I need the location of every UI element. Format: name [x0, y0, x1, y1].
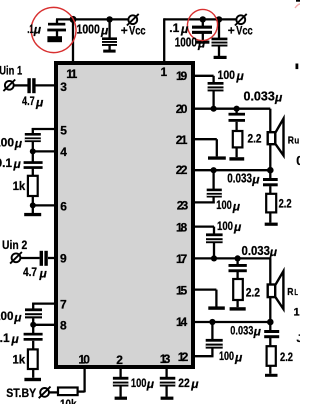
svg-text:6: 6 — [60, 199, 67, 213]
svg-text:0.1: 0.1 — [0, 331, 10, 345]
svg-text:1: 1 — [294, 307, 300, 319]
svg-text:μ: μ — [234, 350, 243, 364]
svg-text:15: 15 — [176, 283, 188, 297]
svg-text:18: 18 — [176, 220, 188, 234]
svg-text:1k: 1k — [13, 180, 26, 193]
svg-text:.1: .1 — [169, 21, 179, 35]
svg-text:0.033: 0.033 — [227, 173, 252, 186]
svg-text:100: 100 — [217, 220, 233, 233]
svg-text:μ: μ — [11, 332, 20, 346]
svg-text:Uin 1: Uin 1 — [0, 64, 22, 77]
svg-text:μ: μ — [253, 325, 262, 339]
svg-text:1: 1 — [161, 65, 168, 79]
svg-text:13: 13 — [160, 352, 171, 366]
svg-text:μ: μ — [39, 267, 48, 281]
svg-text:3: 3 — [60, 80, 67, 94]
svg-text:5: 5 — [60, 123, 67, 137]
svg-text:4.7: 4.7 — [22, 95, 35, 109]
svg-text:μ: μ — [232, 199, 241, 213]
svg-text:20: 20 — [176, 102, 188, 116]
svg-text:μ: μ — [180, 22, 189, 36]
svg-text:9: 9 — [60, 251, 67, 265]
svg-text:μ: μ — [274, 91, 283, 105]
svg-text:2: 2 — [116, 353, 123, 367]
svg-text:21: 21 — [176, 133, 188, 147]
svg-text:2.2: 2.2 — [280, 351, 293, 364]
svg-text:μ: μ — [35, 96, 44, 110]
svg-text:100: 100 — [219, 350, 234, 364]
svg-text:R: R — [287, 286, 294, 298]
svg-text:μ: μ — [233, 220, 242, 234]
svg-text:0.1: 0.1 — [0, 156, 12, 170]
svg-text:u: u — [294, 135, 299, 146]
svg-text:2.2: 2.2 — [248, 133, 262, 146]
svg-text:μ: μ — [197, 37, 206, 51]
svg-text:0.033: 0.033 — [244, 89, 275, 103]
svg-text:0.033: 0.033 — [242, 243, 271, 258]
svg-text:0: 0 — [296, 154, 300, 168]
svg-text:4.7: 4.7 — [23, 266, 37, 279]
svg-text:μ: μ — [13, 157, 22, 171]
svg-text:10: 10 — [78, 352, 90, 366]
svg-text:μ: μ — [13, 310, 22, 324]
svg-text:22: 22 — [176, 163, 188, 177]
svg-text:R: R — [288, 134, 295, 146]
svg-text:7: 7 — [60, 297, 67, 311]
svg-text:μ: μ — [33, 23, 42, 37]
svg-text:100: 100 — [0, 136, 14, 150]
svg-text:23: 23 — [177, 198, 189, 212]
svg-text:2.2: 2.2 — [246, 287, 260, 300]
svg-text:4: 4 — [60, 145, 67, 159]
svg-text:ST.BY: ST.BY — [6, 388, 36, 401]
svg-text:μ: μ — [269, 245, 278, 259]
svg-text:8: 8 — [60, 318, 67, 332]
svg-text:10k: 10k — [60, 398, 77, 404]
svg-text:19: 19 — [176, 69, 188, 83]
svg-text:μ: μ — [146, 377, 155, 391]
svg-text:17: 17 — [176, 252, 188, 266]
svg-text:100: 100 — [218, 69, 236, 82]
svg-text:100: 100 — [131, 377, 147, 390]
svg-text:Vcc: Vcc — [129, 25, 146, 38]
svg-text:μ: μ — [100, 24, 109, 38]
svg-text:μ: μ — [251, 172, 260, 186]
svg-text:L: L — [294, 288, 298, 297]
svg-text:22: 22 — [178, 377, 190, 390]
svg-text:1000: 1000 — [77, 24, 100, 37]
svg-text:14: 14 — [176, 315, 188, 329]
svg-text:Vcc: Vcc — [236, 25, 253, 38]
svg-text:1k: 1k — [12, 353, 25, 366]
svg-text:μ: μ — [190, 377, 199, 391]
svg-text:100: 100 — [0, 309, 14, 323]
svg-text:μ: μ — [236, 69, 245, 83]
svg-text:1000: 1000 — [175, 36, 197, 49]
svg-text:100: 100 — [216, 199, 232, 212]
svg-text:Uin 2: Uin 2 — [2, 239, 27, 252]
svg-text:11: 11 — [66, 67, 77, 81]
svg-text:J: J — [297, 333, 301, 345]
svg-text:2.2: 2.2 — [279, 198, 292, 211]
svg-text:+: + — [228, 24, 235, 38]
svg-text:12: 12 — [178, 350, 189, 364]
svg-text:+: + — [121, 24, 128, 38]
svg-text:0.033: 0.033 — [230, 324, 253, 337]
svg-text:μ: μ — [14, 137, 23, 151]
